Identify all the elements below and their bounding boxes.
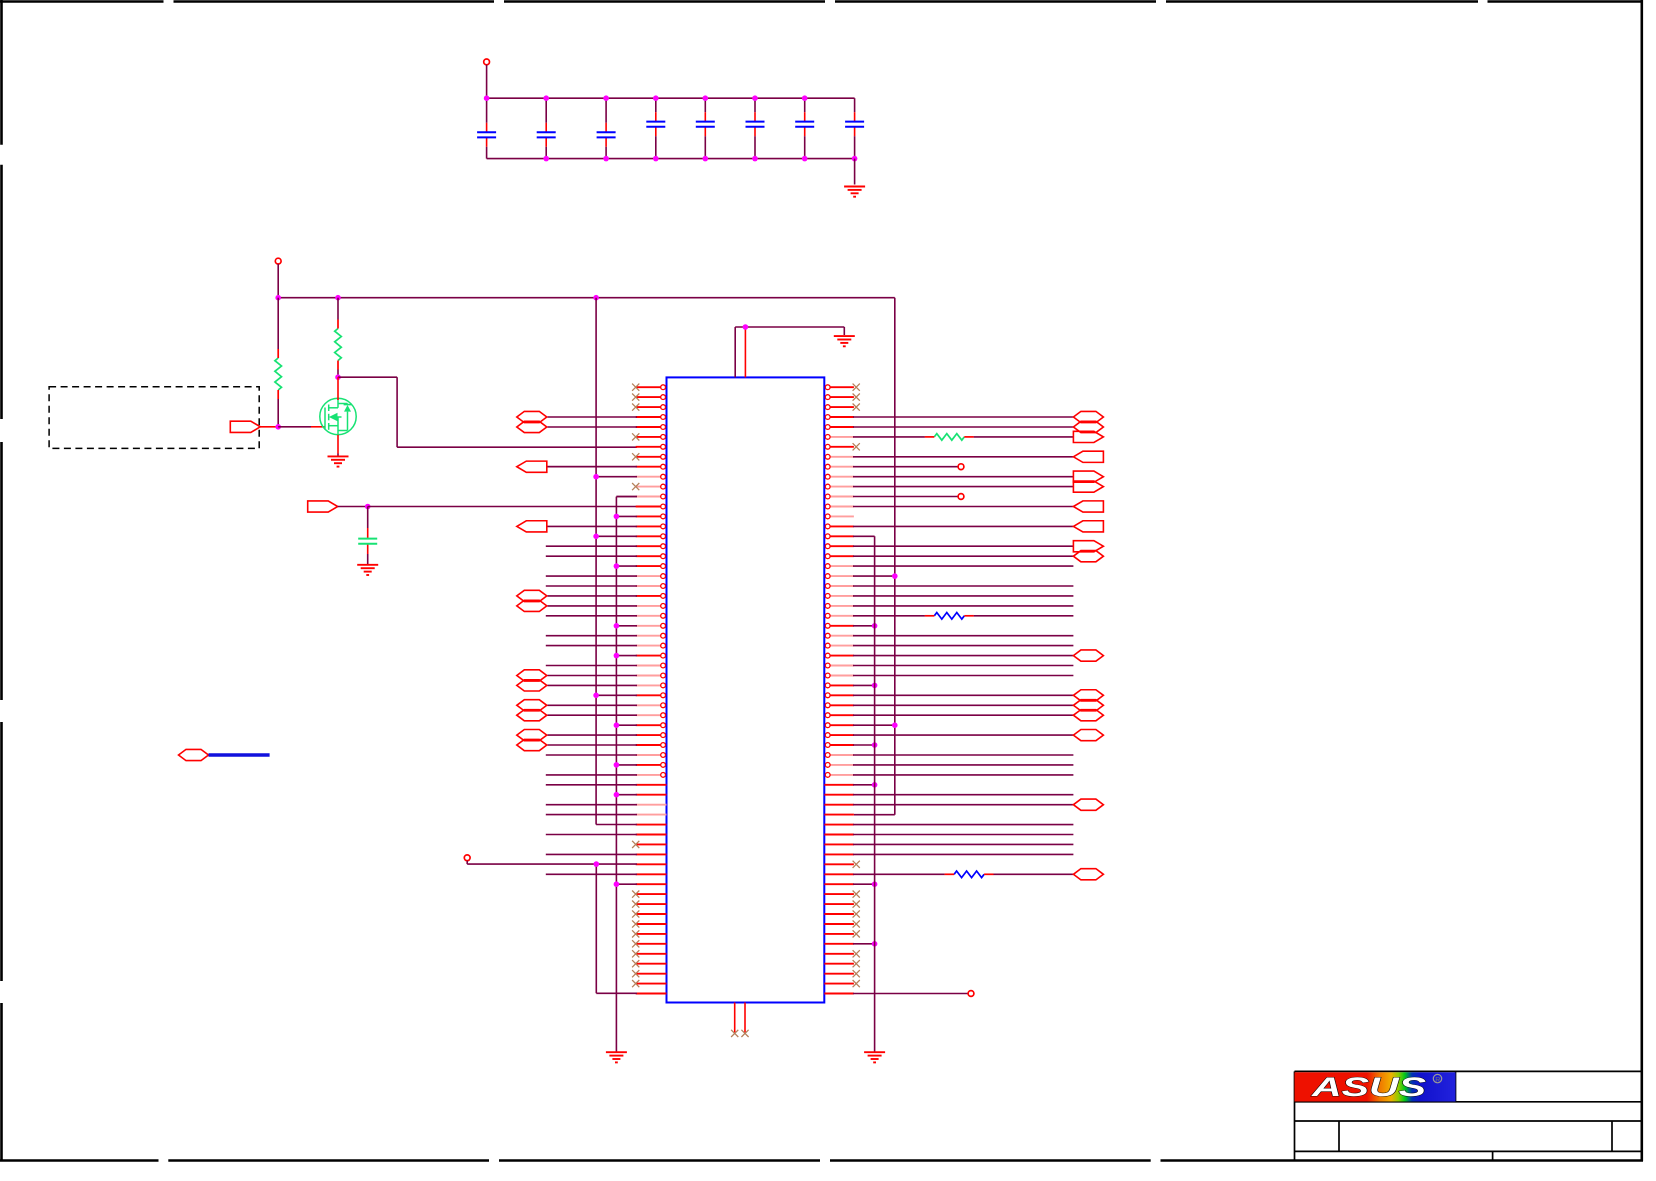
no-connect x bbox=[632, 384, 639, 391]
wire vertical bus C (x=596 lower) bbox=[595, 864, 597, 993]
U1 right pin 24 bbox=[825, 613, 854, 618]
wire bbox=[853, 605, 1073, 607]
U1 left pin 50 bbox=[636, 873, 667, 875]
U1 right pin 27 bbox=[825, 643, 854, 648]
no-connect x bbox=[632, 930, 639, 937]
wire bbox=[546, 774, 637, 776]
no-connect x bbox=[632, 901, 639, 908]
U1 left pin 32 bbox=[636, 693, 666, 698]
U1 left pin 57 bbox=[636, 943, 667, 945]
junction bus D bbox=[872, 683, 878, 689]
no-connect x bbox=[853, 891, 860, 898]
U1 right pin 29 bbox=[825, 663, 854, 668]
U1 left pin 47 bbox=[636, 843, 667, 845]
capacitor C5 bbox=[696, 122, 715, 127]
U1 right pin 49 bbox=[824, 863, 854, 865]
no-connect x bbox=[632, 404, 639, 411]
no-connect x bbox=[632, 920, 639, 927]
U1 right pin 41 bbox=[824, 784, 854, 786]
U1 right pin 14 bbox=[825, 514, 854, 519]
U1 right pin 1 bbox=[825, 385, 854, 390]
wire corner to pin L62 bbox=[596, 992, 637, 994]
wire bbox=[596, 694, 637, 696]
wire bbox=[853, 665, 1073, 667]
U1 left pin 38 bbox=[636, 753, 666, 758]
wire bbox=[616, 883, 637, 885]
wire bbox=[853, 476, 1073, 478]
U1 right pin 20 bbox=[825, 574, 854, 579]
U1 left pin 45 bbox=[636, 824, 667, 826]
wire corner to pin L12 bbox=[616, 496, 637, 498]
U1 left pin 10 bbox=[636, 474, 666, 479]
no-connect x bbox=[632, 940, 639, 947]
port tag right row 17 (out) bbox=[1073, 541, 1103, 552]
junction top bus bbox=[703, 95, 709, 101]
U1 left pin 15 bbox=[636, 524, 666, 529]
wire bbox=[853, 655, 1073, 657]
wire bbox=[546, 814, 637, 816]
junction bus R2 branch bbox=[335, 295, 341, 301]
wire bbox=[546, 555, 637, 557]
bus segment (thick blue) bbox=[209, 753, 270, 756]
U1 right pin 51 bbox=[824, 883, 854, 885]
wire bbox=[853, 684, 875, 686]
wire to R2 bbox=[337, 298, 339, 320]
junction bottom bus bbox=[653, 156, 659, 162]
U1 right pin 50 bbox=[824, 873, 854, 875]
no-connect x bbox=[853, 394, 860, 401]
capacitor C4 bbox=[646, 122, 665, 127]
wire bbox=[853, 565, 1073, 567]
junction bus vertical tap bbox=[593, 295, 599, 301]
U1 left pin 24 bbox=[636, 613, 666, 618]
port tag left row 30 (bidirectional) bbox=[517, 670, 547, 681]
wire bbox=[546, 545, 637, 547]
U1 right pin 54 bbox=[824, 913, 854, 915]
U1 right pin 40 bbox=[825, 773, 854, 778]
junction bus D bbox=[872, 881, 878, 887]
resistor R1 bbox=[275, 349, 282, 399]
U1 right pin 6 bbox=[825, 435, 854, 440]
U1 left pin 19 bbox=[636, 564, 666, 569]
U1 right pin 42 bbox=[824, 794, 854, 796]
wire bbox=[853, 456, 1073, 458]
U1 left pin 54 bbox=[636, 913, 667, 915]
wire bbox=[616, 794, 637, 796]
U1 right pin 45 bbox=[824, 824, 854, 826]
wire bbox=[547, 525, 637, 527]
wire bbox=[853, 575, 895, 577]
port tag left row 34 (bidirectional) bbox=[517, 710, 547, 721]
U1 right pin 34 bbox=[825, 713, 854, 718]
wire to R1 bbox=[277, 298, 279, 349]
U1 left pin 2 bbox=[636, 395, 666, 400]
junction bottom bus bbox=[852, 156, 858, 162]
junction bus D bbox=[872, 941, 878, 947]
wire bus corner down right side bbox=[894, 298, 896, 815]
wire tag to gate node bbox=[260, 426, 278, 428]
wire top pins to ground bbox=[735, 326, 844, 328]
junction top bus bbox=[603, 95, 609, 101]
wire bbox=[853, 824, 1073, 826]
U1 left pin 39 bbox=[636, 763, 666, 768]
wire bbox=[853, 883, 875, 885]
port tag right row 50 (bidirectional) bbox=[1073, 869, 1103, 880]
capacitor C8 bbox=[845, 122, 864, 127]
U1 bottom pin 1 lead bbox=[734, 1003, 736, 1033]
wire bbox=[547, 684, 637, 686]
junction bus B bbox=[614, 762, 620, 768]
wire bbox=[853, 754, 1073, 756]
wire bbox=[853, 416, 1073, 418]
wire bbox=[546, 784, 637, 786]
junction bus B bbox=[614, 623, 620, 629]
sheet border right bbox=[1641, 0, 1644, 1161]
port tag right row 4 (bi) bbox=[1073, 411, 1103, 422]
port tag right row 18 (bi) bbox=[1073, 551, 1103, 562]
terminal right row 12 bbox=[958, 494, 964, 500]
junction top bus bbox=[543, 95, 549, 101]
port tag right row 6 (output) bbox=[1073, 431, 1103, 442]
U1 right pin 31 bbox=[825, 683, 854, 688]
junction right bus bbox=[892, 722, 898, 728]
U1 left pin 41 bbox=[636, 784, 667, 786]
mosfet drain lead bbox=[337, 377, 339, 400]
U1 right pin 26 bbox=[825, 633, 854, 638]
wire R3 to tag bbox=[974, 436, 1074, 438]
port tag right row 36 (bi) bbox=[1073, 730, 1103, 741]
U1 left pin 34 bbox=[636, 713, 666, 718]
junction bus C top bbox=[594, 861, 600, 867]
capacitor C3 bbox=[597, 132, 616, 137]
wire bbox=[853, 744, 875, 746]
U1 right pin 33 bbox=[825, 703, 854, 708]
no-connect x bbox=[632, 910, 639, 917]
junction top bus bbox=[752, 95, 758, 101]
sheet border top bbox=[0, 0, 1643, 3]
U1 right pin 44 bbox=[824, 814, 854, 816]
U1 right pin 12 bbox=[825, 494, 854, 499]
junction bus B bbox=[614, 881, 620, 887]
wire bbox=[596, 476, 637, 478]
U1 left pin 16 bbox=[636, 534, 666, 539]
wire bbox=[616, 515, 637, 517]
wire down to ground bbox=[843, 327, 845, 335]
U1 left pin 6 bbox=[636, 435, 666, 440]
ground C9 bbox=[357, 565, 378, 575]
port tag right row 43 (bi) bbox=[1073, 799, 1103, 810]
wire R5 to tag bbox=[994, 873, 1074, 875]
U1 left pin 51 bbox=[636, 883, 667, 885]
ground U1 top bbox=[834, 336, 855, 346]
U1 left pin 48 bbox=[636, 853, 667, 855]
wire R1 to gate node bbox=[277, 399, 279, 427]
wire bbox=[547, 734, 637, 736]
junction C9 node bbox=[365, 504, 371, 510]
wire bbox=[547, 416, 637, 418]
port tag bus (bidirectional) bbox=[179, 749, 209, 760]
wire bbox=[853, 555, 1073, 557]
dashed annotation box bbox=[49, 387, 259, 449]
wire terminal to pin L49 bbox=[467, 863, 637, 865]
capacitor C1 leads bbox=[486, 98, 488, 158]
U1 left pin 7 bbox=[636, 444, 666, 449]
wire bbox=[853, 764, 1073, 766]
port tag right row 32 (bi) bbox=[1073, 690, 1103, 701]
U1 right pin 59 bbox=[824, 963, 854, 965]
U1 left pin 21 bbox=[636, 584, 666, 589]
wire bbox=[853, 545, 1073, 547]
no-connect x bottom pin 2 bbox=[741, 1030, 748, 1037]
junction drain node bbox=[335, 374, 341, 380]
U1 top pin 2 lead bbox=[744, 327, 746, 377]
U1 right pin 60 bbox=[824, 973, 854, 975]
U1 right pin 13 bbox=[825, 504, 854, 509]
no-connect x bbox=[632, 394, 639, 401]
port tag right row 28 (bi) bbox=[1073, 650, 1103, 661]
capacitor C7 bbox=[795, 122, 814, 127]
wire bbox=[546, 804, 637, 806]
U1 left pin 25 bbox=[636, 623, 666, 628]
U1 left pin 1 bbox=[636, 385, 666, 390]
U1 right pin 48 bbox=[824, 853, 854, 855]
U1 right pin 16 bbox=[825, 534, 854, 539]
port tag left row 5 (bidirectional) bbox=[517, 421, 547, 432]
U1 left pin 13 bbox=[636, 504, 666, 509]
wire bbox=[616, 565, 637, 567]
capacitor C2 bbox=[537, 132, 556, 137]
capacitor C6 leads bbox=[754, 98, 756, 158]
wire to ground bbox=[854, 159, 856, 185]
U1 top pin 1 lead bbox=[734, 327, 736, 377]
U1 right pin 4 bbox=[825, 415, 854, 420]
wire bbox=[853, 675, 1073, 677]
wire power bus bbox=[278, 297, 895, 299]
wire bbox=[853, 853, 1073, 855]
U1 right pin 17 bbox=[825, 544, 854, 549]
no-connect x bbox=[853, 404, 860, 411]
U1 left pin 60 bbox=[636, 973, 667, 975]
no-connect x bbox=[853, 910, 860, 917]
U1 right pin 8 bbox=[825, 454, 854, 459]
U1 left pin 5 bbox=[636, 425, 666, 430]
svg-text:ASUS: ASUS bbox=[1310, 1072, 1426, 1102]
port tag right row 13 (in) bbox=[1073, 501, 1103, 512]
U1 right pin 2 bbox=[825, 395, 854, 400]
junction bus B bbox=[614, 563, 620, 569]
ground U1 bottom-right bbox=[864, 1052, 885, 1062]
U1 left pin 14 bbox=[636, 514, 666, 519]
no-connect x bbox=[632, 970, 639, 977]
wire vertical bus D (x=874.6) bbox=[874, 536, 876, 1052]
wire bbox=[546, 834, 637, 836]
resistor R4 bbox=[925, 613, 974, 620]
wire cap bank top bus bbox=[487, 97, 855, 99]
no-connect x bbox=[632, 433, 639, 440]
capacitor C9 leads bbox=[367, 507, 369, 565]
no-connect x bbox=[853, 960, 860, 967]
terminal right row 9 bbox=[958, 464, 964, 470]
wire bbox=[616, 655, 637, 657]
wire bbox=[547, 675, 637, 677]
terminal right row 62 bbox=[968, 991, 974, 997]
U1 left pin 46 bbox=[636, 834, 667, 836]
capacitor C6 bbox=[746, 122, 765, 127]
U1 right pin 46 bbox=[824, 834, 854, 836]
junction bus B bbox=[614, 722, 620, 728]
U1 right pin 62 bbox=[824, 993, 854, 995]
wire corner to bus D bbox=[853, 535, 875, 537]
U1 left pin 28 bbox=[636, 653, 666, 658]
U1 left pin 8 bbox=[636, 454, 666, 459]
ASUS logo bbox=[1295, 1072, 1456, 1102]
wire bbox=[547, 595, 637, 597]
U1 left pin 49 bbox=[636, 863, 667, 865]
wire tag to junction bbox=[338, 506, 368, 508]
no-connect x bbox=[632, 960, 639, 967]
junction bottom bus bbox=[703, 156, 709, 162]
junction gate node bbox=[275, 424, 281, 430]
U1 bottom pin 2 lead bbox=[744, 1003, 746, 1033]
wire bbox=[546, 585, 637, 587]
no-connect x bbox=[853, 443, 860, 450]
port tag (output arrow) node C9 bbox=[308, 501, 338, 512]
wire bbox=[853, 694, 1073, 696]
capacitor C2 leads bbox=[545, 98, 547, 158]
U1 right pin 55 bbox=[824, 923, 854, 925]
port tag left row 22 (bidirectional) bbox=[517, 590, 547, 601]
U1 right pin 35 bbox=[825, 723, 854, 728]
U1 left pin 29 bbox=[636, 663, 666, 668]
wire to R3 bbox=[853, 436, 925, 438]
wire bbox=[853, 506, 1073, 508]
no-connect x bbox=[632, 950, 639, 957]
capacitor C5 leads bbox=[704, 98, 706, 158]
U1 right pin 23 bbox=[825, 604, 854, 609]
U1 left pin 55 bbox=[636, 923, 667, 925]
U1 right pin 18 bbox=[825, 554, 854, 559]
terminal node L49 bbox=[464, 855, 470, 861]
no-connect x bbox=[853, 920, 860, 927]
U1 left pin 4 bbox=[636, 415, 666, 420]
port tag right row 5 (bi) bbox=[1073, 421, 1103, 432]
U1 left pin 43 bbox=[636, 804, 667, 806]
U1 right pin 28 bbox=[825, 653, 854, 658]
U1 left pin 9 bbox=[636, 464, 666, 469]
wire bbox=[853, 943, 875, 945]
resistor R3 bbox=[925, 434, 974, 441]
no-connect x bbox=[853, 861, 860, 868]
title block bbox=[1295, 1071, 1642, 1161]
wire corner to pin L45 bbox=[596, 824, 637, 826]
junction bus A bbox=[593, 693, 599, 699]
wire bbox=[853, 794, 1073, 796]
U1 left pin 52 bbox=[636, 893, 667, 895]
U1 left pin 37 bbox=[636, 743, 666, 748]
U1 right pin 53 bbox=[824, 903, 854, 905]
U1 right pin 10 bbox=[825, 474, 854, 479]
U1 left pin 23 bbox=[636, 604, 666, 609]
wire bbox=[853, 734, 1073, 736]
wire bbox=[853, 486, 1073, 488]
U1 left pin 20 bbox=[636, 574, 666, 579]
wire bbox=[616, 764, 637, 766]
gate pin lead red bbox=[311, 426, 325, 428]
U1 right pin 37 bbox=[825, 743, 854, 748]
port tag left row 37 (bidirectional) bbox=[517, 739, 547, 750]
U1 left pin 26 bbox=[636, 633, 666, 638]
resistor R2 bbox=[335, 320, 342, 370]
wire drain to corner bbox=[338, 376, 397, 378]
wire gate node to mosfet bbox=[278, 426, 311, 428]
wire bbox=[547, 426, 637, 428]
port tag right row 15 (in) bbox=[1073, 521, 1103, 532]
U1 left pin 61 bbox=[636, 983, 667, 985]
wire terminal stem bbox=[486, 65, 488, 98]
wire terminal stem bbox=[277, 264, 279, 298]
junction bottom bus bbox=[543, 156, 549, 162]
U1 left pin 17 bbox=[636, 544, 666, 549]
wire bbox=[853, 834, 1073, 836]
U1 right pin 22 bbox=[825, 594, 854, 599]
ground U1 bottom-left bbox=[606, 1052, 627, 1062]
U1 right pin 3 bbox=[825, 405, 854, 410]
wire bbox=[546, 665, 637, 667]
wire bbox=[853, 714, 1073, 716]
wire bbox=[547, 744, 637, 746]
junction top bus bbox=[802, 95, 808, 101]
sheet border left bbox=[0, 0, 3, 1161]
no-connect x bbox=[632, 891, 639, 898]
wire bbox=[853, 724, 895, 726]
wire bbox=[546, 754, 637, 756]
port tag left row 23 (bidirectional) bbox=[517, 600, 547, 611]
junction bus D bbox=[872, 742, 878, 748]
port tag right row 10 (out) bbox=[1073, 471, 1103, 482]
wire terminal stem bbox=[466, 861, 468, 864]
U1 left pin 3 bbox=[636, 405, 666, 410]
junction top pin bbox=[743, 324, 749, 330]
port tag right row 11 (out) bbox=[1073, 481, 1103, 492]
U1 right pin 56 bbox=[824, 933, 854, 935]
wire to terminal bbox=[853, 993, 968, 995]
wire vertical bus B (x=616) bbox=[615, 497, 617, 1052]
no-connect x bbox=[632, 453, 639, 460]
U1 right pin 47 bbox=[824, 843, 854, 845]
port tag right row 34 (bi) bbox=[1073, 710, 1103, 721]
wire bbox=[853, 645, 1073, 647]
terminal VCC mosfet bbox=[275, 258, 281, 264]
junction top bus bbox=[653, 95, 659, 101]
junction bus D bbox=[872, 623, 878, 629]
wire bbox=[547, 605, 637, 607]
junction bus B bbox=[614, 792, 620, 798]
wire bbox=[616, 496, 637, 498]
capacitor C4 leads bbox=[655, 98, 657, 158]
U1 left pin 11 bbox=[636, 484, 666, 489]
wire bbox=[547, 704, 637, 706]
sheet border bottom bbox=[0, 1159, 1643, 1162]
wire bbox=[853, 804, 1073, 806]
U1 right pin 19 bbox=[825, 564, 854, 569]
wire cap bank bottom bus bbox=[487, 158, 855, 160]
wire bbox=[546, 645, 637, 647]
U1 right pin 30 bbox=[825, 673, 854, 678]
wire bbox=[853, 774, 1073, 776]
U1 right pin 61 bbox=[824, 983, 854, 985]
U1 left pin 53 bbox=[636, 903, 667, 905]
U1 left pin 62 bbox=[636, 993, 667, 995]
